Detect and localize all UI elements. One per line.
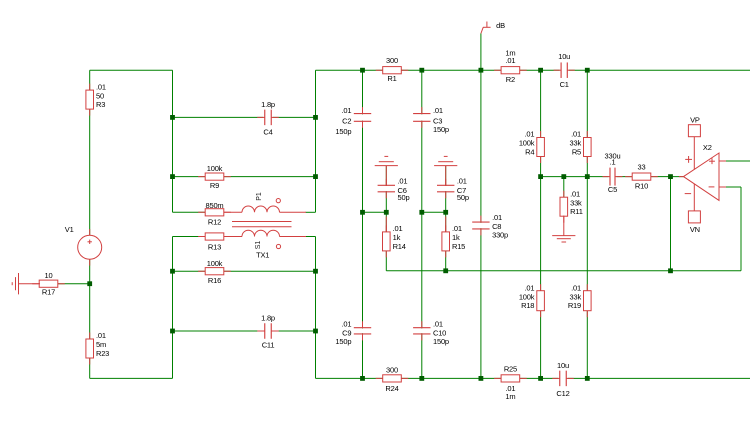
svg-text:dB: dB xyxy=(496,21,505,30)
svg-text:150p: 150p xyxy=(335,337,351,346)
svg-text:150p: 150p xyxy=(433,125,449,134)
svg-text:R9: R9 xyxy=(210,181,219,190)
junction node (540.6,70.2) xyxy=(538,68,543,73)
svg-text:R25: R25 xyxy=(504,364,517,373)
capacitor C5 xyxy=(603,151,623,194)
junction node (172.5,331.0) xyxy=(170,329,175,334)
wire top rail xyxy=(316,69,750,71)
junction node (670.5,270.8) xyxy=(668,268,673,273)
svg-text:VN: VN xyxy=(690,225,700,234)
capacitor C2 xyxy=(335,106,372,136)
svg-text:50p: 50p xyxy=(457,193,469,202)
svg-text:.01: .01 xyxy=(570,189,580,198)
svg-text:C2: C2 xyxy=(342,117,351,126)
junction node (315.5,331.0) xyxy=(313,329,318,334)
wire R12 row left xyxy=(173,211,207,213)
wire top-left rail xyxy=(90,69,173,71)
svg-text:.01: .01 xyxy=(524,283,534,292)
junction node (315.5,117.4) xyxy=(313,115,318,120)
wire R13 row right xyxy=(306,236,316,238)
output probe dB xyxy=(481,21,505,33)
svg-text:.01: .01 xyxy=(571,283,581,292)
wire feedback top xyxy=(719,186,741,188)
transformer TX1 xyxy=(224,192,306,259)
capacitor C11 xyxy=(257,313,279,349)
svg-text:50p: 50p xyxy=(398,193,410,202)
wire V1 column upper xyxy=(89,70,91,284)
wire R5-R19 column xyxy=(586,70,588,378)
wire V1 column lower xyxy=(89,284,91,379)
svg-text:R24: R24 xyxy=(385,384,398,393)
wire C6 column xyxy=(385,166,387,213)
resistor R23 xyxy=(86,331,109,364)
junction node (421.8,70.2) xyxy=(419,68,424,73)
wire right-block lower vertical xyxy=(315,237,317,379)
svg-text:.01: .01 xyxy=(492,213,502,222)
capacitor C7 xyxy=(436,176,469,202)
op-amp X2 xyxy=(679,116,726,234)
svg-text:R23: R23 xyxy=(96,349,109,358)
svg-text:.01: .01 xyxy=(398,176,408,185)
junction node (421.8,212.3) xyxy=(419,210,424,215)
svg-text:R3: R3 xyxy=(96,100,105,109)
wire feedback to node xyxy=(670,177,672,271)
svg-text:R11: R11 xyxy=(570,207,583,216)
junction node (480.9,378.4) xyxy=(479,376,484,381)
svg-text:33: 33 xyxy=(638,163,646,172)
capacitor C1 xyxy=(554,52,575,89)
svg-text:1k: 1k xyxy=(393,233,401,242)
wire C8 column xyxy=(480,70,482,378)
svg-text:C1: C1 xyxy=(560,80,569,89)
svg-text:C12: C12 xyxy=(556,389,569,398)
capacitor C6 xyxy=(377,176,410,202)
svg-text:R17: R17 xyxy=(42,288,55,297)
capacitor C9 xyxy=(335,319,372,345)
wire left-block lower vertical xyxy=(172,237,174,379)
voltage source V1 xyxy=(65,225,102,266)
resistor R17 xyxy=(32,271,65,297)
ground below R11 xyxy=(552,216,575,243)
svg-text:R13: R13 xyxy=(208,243,221,252)
wire C2-C9 column xyxy=(362,70,364,378)
resistor R14 xyxy=(383,224,406,257)
svg-text:100k: 100k xyxy=(519,139,535,148)
svg-text:.01: .01 xyxy=(457,176,467,185)
svg-text:R2: R2 xyxy=(506,75,515,84)
junction node (362.5,70.2) xyxy=(360,68,365,73)
junction node (540.6,378.4) xyxy=(538,376,543,381)
svg-text:10u: 10u xyxy=(557,361,569,370)
wire R17 row xyxy=(58,283,90,285)
svg-text:VP: VP xyxy=(690,116,700,125)
junction node (315.5,271.2) xyxy=(313,269,318,274)
wire R16 row xyxy=(173,270,316,272)
svg-text:33k: 33k xyxy=(570,198,582,207)
svg-text:C4: C4 xyxy=(263,127,272,136)
junction node (362.5,378.4) xyxy=(360,376,365,381)
junction node (421.8,378.4) xyxy=(419,376,424,381)
svg-text:.01: .01 xyxy=(433,106,443,115)
resistor R12 xyxy=(198,201,231,227)
wire right-block upper vertical xyxy=(315,70,317,212)
wire R13 row left xyxy=(173,236,207,238)
resistor R9 xyxy=(198,164,231,190)
svg-text:1.8p: 1.8p xyxy=(261,313,275,322)
junction node (540.6,176.6) xyxy=(538,174,543,179)
resistor R24 xyxy=(376,366,409,393)
svg-text:10: 10 xyxy=(45,271,53,280)
svg-text:.01: .01 xyxy=(524,130,534,139)
svg-text:X2: X2 xyxy=(703,143,712,152)
wire feedback vertical xyxy=(740,187,742,271)
junction node (480.9,70.2) xyxy=(479,68,484,73)
svg-text:R4: R4 xyxy=(525,147,534,156)
resistor R5 xyxy=(570,130,592,163)
wire bottom rail xyxy=(316,377,750,379)
junction node (172.5,271.2) xyxy=(170,269,175,274)
svg-text:.01: .01 xyxy=(96,331,106,340)
resistor R10 xyxy=(625,163,658,191)
resistor R16 xyxy=(198,259,231,285)
resistor R25 xyxy=(494,364,527,401)
resistor R11 xyxy=(560,189,583,222)
svg-text:R15: R15 xyxy=(452,242,465,251)
wire middle rail xyxy=(386,270,741,272)
junction node (315.5,176.6) xyxy=(313,174,318,179)
svg-text:.1: .1 xyxy=(610,157,616,166)
junction node (587.3,176.6) xyxy=(585,174,590,179)
resistor R15 xyxy=(442,224,465,257)
svg-text:.01: .01 xyxy=(452,224,462,233)
wire left-block upper vertical xyxy=(172,70,174,212)
svg-text:.01: .01 xyxy=(341,106,351,115)
wire dB probe drop xyxy=(480,34,482,71)
wire C2-C6 link xyxy=(363,211,387,213)
svg-text:50: 50 xyxy=(96,91,104,100)
wire R15 branch xyxy=(445,212,447,270)
svg-text:.01: .01 xyxy=(505,56,515,65)
svg-text:300: 300 xyxy=(386,366,398,375)
capacitor C3 xyxy=(412,106,449,134)
wire bottom-left rail xyxy=(90,377,173,379)
wire R12 row right xyxy=(306,211,316,213)
svg-text:R5: R5 xyxy=(572,147,581,156)
wire op-amp output xyxy=(719,160,750,162)
svg-text:33k: 33k xyxy=(570,292,582,301)
capacitor C4 xyxy=(257,100,279,137)
junction node (172.5,117.4) xyxy=(170,115,175,120)
resistor R19 xyxy=(568,283,591,317)
svg-text:100k: 100k xyxy=(519,292,535,301)
svg-text:.01: .01 xyxy=(433,319,443,328)
junction node (445.7,270.8) xyxy=(443,268,448,273)
svg-text:100k: 100k xyxy=(207,164,223,173)
svg-text:100k: 100k xyxy=(207,259,223,268)
wire C11 row xyxy=(173,330,316,332)
junction node (587.3,70.2) xyxy=(585,68,590,73)
svg-text:.01: .01 xyxy=(341,319,351,328)
wire R11 branch xyxy=(563,177,565,199)
svg-text:V1: V1 xyxy=(65,225,74,234)
red lead stubs xyxy=(386,217,445,233)
wire R14 branch xyxy=(385,212,387,270)
svg-text:P1: P1 xyxy=(256,192,263,201)
svg-text:R1: R1 xyxy=(387,74,396,83)
svg-text:150p: 150p xyxy=(335,127,351,136)
svg-text:R19: R19 xyxy=(568,301,581,310)
junction node (362.5,212.3) xyxy=(360,210,365,215)
svg-text:150p: 150p xyxy=(433,337,449,346)
ground above C6 xyxy=(375,156,398,186)
wire C5-R10 row xyxy=(541,176,684,178)
capacitor C8 xyxy=(471,213,508,239)
junction node (172.5,176.6) xyxy=(170,174,175,179)
svg-text:.01: .01 xyxy=(571,130,581,139)
ground above C7 xyxy=(434,156,457,186)
svg-text:.01: .01 xyxy=(393,224,403,233)
resistor R3 xyxy=(86,82,106,115)
resistor R1 xyxy=(376,56,409,83)
resistor R13 xyxy=(198,233,231,252)
capacitor C10 xyxy=(412,319,449,346)
svg-text:300: 300 xyxy=(386,56,398,65)
junction node (563.8,176.6) xyxy=(561,174,566,179)
svg-text:R18: R18 xyxy=(521,301,534,310)
svg-text:S1: S1 xyxy=(255,241,262,250)
svg-text:R10: R10 xyxy=(635,181,648,190)
svg-text:5m: 5m xyxy=(96,340,106,349)
svg-text:C5: C5 xyxy=(608,185,617,194)
svg-text:1.8p: 1.8p xyxy=(261,100,275,109)
svg-text:1k: 1k xyxy=(452,233,460,242)
svg-text:10u: 10u xyxy=(558,52,570,61)
resistor R2 xyxy=(494,48,527,84)
wire C3-C7 link xyxy=(422,211,446,213)
svg-text:330p: 330p xyxy=(492,230,508,239)
wire C3-C10 column xyxy=(421,70,423,378)
svg-text:R14: R14 xyxy=(393,242,406,251)
wire C7 column xyxy=(445,166,447,213)
svg-text:R16: R16 xyxy=(208,276,221,285)
svg-text:33k: 33k xyxy=(570,139,582,148)
wire R4-R18 column xyxy=(540,70,542,378)
junction node (386.3,212.3) xyxy=(384,210,389,215)
resistor R4 xyxy=(519,130,545,163)
wire C4 row xyxy=(173,116,316,118)
svg-text:.01: .01 xyxy=(96,82,106,91)
svg-text:R12: R12 xyxy=(208,218,221,227)
junction node (445.7,212.3) xyxy=(443,210,448,215)
svg-text:C11: C11 xyxy=(262,341,275,350)
junction node (670.5,176.6) xyxy=(668,174,673,179)
ground (left) xyxy=(12,273,40,294)
resistor R18 xyxy=(519,283,545,317)
svg-text:TX1: TX1 xyxy=(256,250,269,259)
svg-text:850m: 850m xyxy=(206,201,224,210)
junction node (89.7,283.7) xyxy=(87,281,92,286)
capacitor C12 xyxy=(552,361,574,398)
wire R9 row xyxy=(173,176,316,178)
junction node (587.3,378.4) xyxy=(585,376,590,381)
svg-text:1m: 1m xyxy=(505,392,515,401)
